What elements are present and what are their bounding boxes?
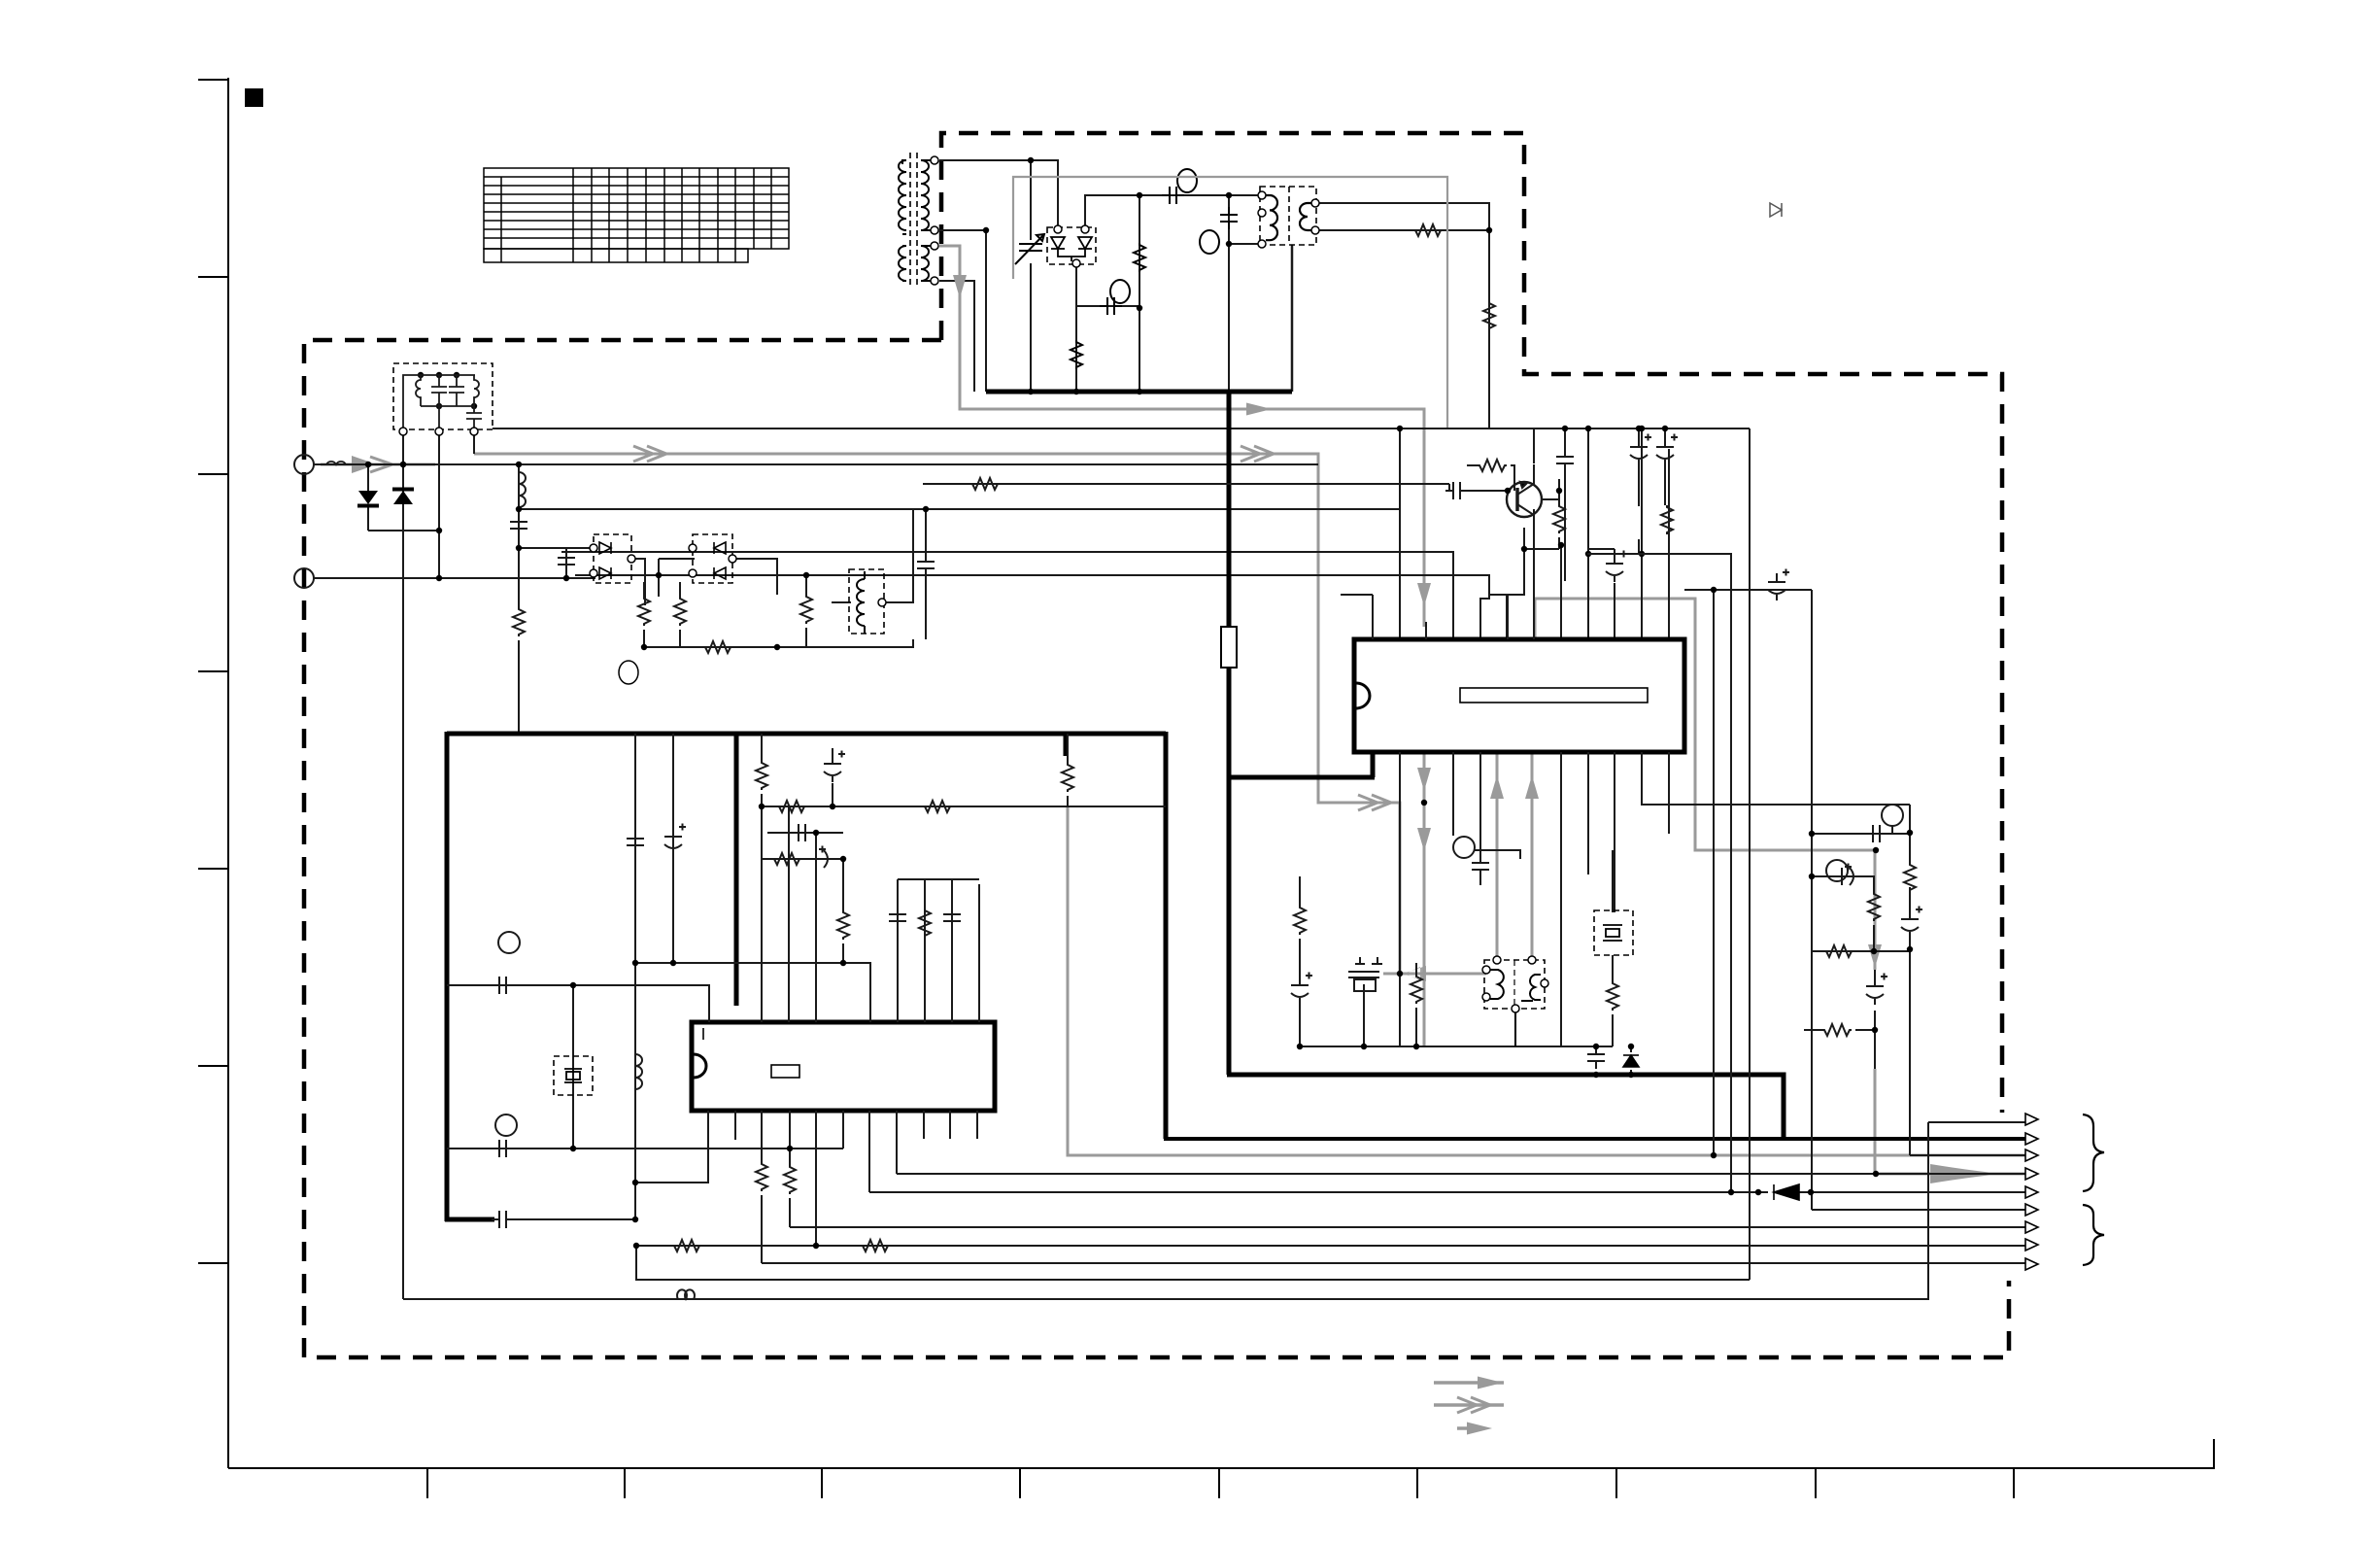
row8 — [636, 1245, 2025, 1247]
resistor — [1822, 1024, 1852, 1036]
ecap drop — [832, 748, 833, 806]
left area of IC2: caps circles crystal — [447, 932, 843, 1228]
thick L to IC1 — [1227, 752, 1375, 777]
gray r3 row — [1068, 806, 2025, 1155]
wire j2 — [314, 577, 595, 579]
left tick y285 — [198, 276, 228, 278]
gray mixer arrow left — [1383, 973, 1400, 976]
resistor — [837, 910, 849, 940]
left tick y691 — [198, 670, 228, 672]
gray arrowheads — [1246, 403, 1272, 416]
output arrow — [2025, 1133, 2038, 1145]
electrolytic capacitor — [1866, 974, 1887, 1006]
IF transformer dashed box top — [1260, 187, 1316, 245]
secondary winding lower — [921, 246, 929, 281]
thick box right — [1164, 732, 1169, 1139]
collector rail up — [1533, 429, 1535, 463]
gray under IC1 — [1423, 752, 1426, 1046]
signal flow chevron — [1241, 446, 1274, 462]
bottom ticks — [427, 1468, 2014, 1498]
signal flow arrow up — [1525, 775, 1539, 799]
antenna connector J1 — [294, 455, 314, 474]
input filter dashed box FL1 — [393, 363, 493, 429]
electrolytic capacitor — [1291, 973, 1312, 1005]
resistor — [800, 595, 812, 624]
outline arrows at outputs — [2025, 1114, 2038, 1125]
wire junction dots — [1711, 587, 1717, 593]
component pins — [590, 544, 597, 552]
left tick y82 — [198, 79, 228, 81]
left tick y894 — [198, 868, 228, 870]
component pins — [689, 544, 697, 552]
gray rail y182 — [1013, 177, 1447, 429]
resistor — [784, 1165, 796, 1194]
resistor — [1824, 945, 1853, 957]
dot junctions power — [983, 157, 1232, 394]
test point circle — [1200, 230, 1219, 254]
output arrow — [2025, 1149, 2038, 1161]
electrolytic capacitor — [1768, 569, 1789, 601]
component pins — [878, 599, 886, 606]
diode D1 — [357, 491, 379, 506]
capacitor — [1220, 207, 1238, 229]
thick stub x1097 — [1064, 734, 1069, 756]
thick box left — [445, 732, 450, 1221]
ceramic filter left — [1348, 964, 1379, 1046]
wire sec lower — [939, 281, 974, 392]
wire box lower pin — [1229, 243, 1262, 245]
verticals to IC1 top — [1399, 429, 1401, 639]
electrolytic capacitor — [1606, 551, 1627, 583]
capacitor — [889, 907, 906, 929]
wire x1265 down — [1228, 195, 1230, 392]
row9 — [762, 1262, 2025, 1264]
output arrow — [2025, 1204, 2038, 1216]
res drop left — [761, 734, 763, 1022]
capacitor — [1472, 855, 1489, 877]
capacitor — [1556, 449, 1574, 471]
row3 dark tail — [1910, 1154, 2025, 1156]
resistor — [1071, 340, 1082, 369]
transformer pins — [931, 156, 938, 285]
braces — [2083, 1114, 2104, 1265]
output arrow — [2025, 1258, 2038, 1270]
resistor — [674, 597, 686, 626]
resistor — [1062, 763, 1073, 792]
signal flow arrow down — [1417, 768, 1431, 791]
wire junction dots — [1486, 227, 1492, 233]
row y830 — [762, 806, 1166, 807]
left res/cap column — [1299, 876, 1301, 1046]
wire junction dots — [1397, 426, 1403, 431]
wire junction dots — [1872, 1027, 1878, 1033]
verticals from rails — [1587, 554, 1731, 1192]
gray pins up arrows — [1497, 752, 1532, 962]
x1966 column — [1909, 805, 1911, 1155]
resistor drop — [1415, 963, 1417, 1046]
resistor — [923, 801, 952, 812]
resistors cluster — [510, 514, 935, 653]
gray r4 tail — [1875, 1069, 2025, 1174]
emitter down — [1507, 528, 1524, 639]
left tick y1300 — [198, 1262, 228, 1264]
diode D1 drop — [367, 464, 369, 531]
resistor — [861, 1240, 890, 1252]
electrolytic capacitor — [1630, 434, 1651, 466]
circuitry above IC2 — [627, 734, 1166, 1219]
resistor — [1868, 892, 1880, 921]
resistor — [703, 641, 732, 653]
gray trace from transformer — [939, 246, 1424, 627]
rail y1077 — [1300, 1046, 1613, 1047]
thick bus power — [986, 390, 1292, 394]
gray antenna arrow segment — [321, 463, 435, 466]
bottom frame line — [228, 1439, 2214, 1468]
capacitor — [627, 831, 644, 853]
transformer box bottom pin — [1291, 245, 1294, 392]
dashed box top power section — [941, 133, 2002, 1113]
resistor — [756, 1162, 767, 1191]
wire junction dots — [570, 982, 576, 988]
y979 wire — [1812, 950, 1910, 952]
wire to varicap — [1030, 160, 1032, 392]
wire sec2 — [939, 230, 986, 392]
resistor — [1904, 863, 1916, 892]
component pins — [931, 156, 938, 164]
wire junction dots — [365, 462, 371, 467]
electrolytic capacitor — [808, 846, 833, 869]
resistor R905 h — [1413, 224, 1495, 330]
wire junction dots — [759, 804, 765, 809]
resistor right of Q1 — [1553, 504, 1565, 533]
cluster verticals — [518, 464, 520, 734]
resistor — [672, 1240, 701, 1252]
test point circle — [619, 661, 638, 684]
diode pack D901 dashed box — [1047, 227, 1096, 264]
connector J2 — [294, 568, 314, 588]
resistor — [1294, 906, 1306, 935]
component pins — [1258, 191, 1266, 199]
capacitor — [492, 977, 514, 994]
res drop right — [1067, 734, 1069, 806]
wire diode box top — [1085, 195, 1262, 229]
capacitor — [510, 514, 527, 536]
row y857 — [767, 832, 843, 834]
IC2 bottom pins — [635, 1111, 977, 1263]
capacitor — [917, 554, 935, 576]
inductor dashed box L5 — [849, 569, 884, 634]
test point circle — [1177, 169, 1197, 192]
resistor — [1661, 505, 1673, 534]
row y991 — [635, 963, 870, 1022]
row4 — [897, 1173, 2025, 1175]
wire y666 — [644, 639, 913, 647]
crystal dashed box right — [1594, 910, 1633, 955]
component pins — [1054, 225, 1062, 233]
rail y524 — [519, 509, 1400, 639]
rail y441 — [493, 428, 1750, 429]
resistor — [756, 761, 767, 790]
output arrow — [2025, 1168, 2038, 1180]
thick vertical main — [1227, 392, 1232, 1075]
row7 — [790, 1226, 2025, 1228]
signal flow arrow down — [1868, 944, 1882, 968]
inductor L1 — [326, 462, 346, 464]
component pins — [1482, 966, 1490, 974]
row5 with diode — [869, 1191, 2025, 1193]
diode pack dashed box A — [594, 534, 631, 583]
capacitor — [1587, 1046, 1605, 1069]
inductor — [677, 1289, 695, 1299]
row6 — [1812, 1209, 2025, 1211]
signal flow chevron — [633, 446, 666, 462]
input wire — [314, 463, 1318, 465]
IC1 top pins — [1341, 509, 1534, 639]
signal flow arrow down — [1417, 583, 1431, 606]
thick box top — [447, 732, 1166, 737]
diode bottom wire — [368, 530, 439, 531]
rail y498 with resistor — [923, 483, 1449, 485]
row y884 — [762, 859, 843, 910]
capacitor — [492, 1140, 514, 1157]
row y1317 supply — [636, 1246, 1750, 1280]
output arrow — [2025, 1186, 2038, 1198]
signal flow arrow — [1467, 1423, 1492, 1435]
resistor — [777, 801, 806, 812]
left frame line — [227, 78, 229, 1468]
inductor — [635, 1054, 642, 1089]
left tick y1097 — [198, 1065, 228, 1067]
wire junction dots — [1028, 157, 1034, 163]
electrolytic capacitor — [824, 751, 845, 783]
secondary winding upper — [921, 160, 929, 230]
diode D2 — [392, 490, 414, 505]
long drop from filter — [402, 431, 404, 1299]
resistor — [1607, 981, 1618, 1011]
wire box right upper — [1315, 203, 1489, 429]
diode D2 drop — [402, 464, 404, 531]
drops to IC2 — [789, 806, 843, 1022]
thick bus y1106 — [1227, 1075, 1784, 1139]
wire y315 — [1076, 305, 1139, 307]
wire junction dots — [1755, 1189, 1761, 1195]
transformer core — [910, 153, 917, 285]
gray right cluster — [1535, 599, 1875, 970]
x654 line w cap & coil — [634, 734, 636, 1219]
cap C903 — [1071, 169, 1238, 369]
y858 wire — [1812, 833, 1910, 835]
signal flow arrow up — [1490, 775, 1504, 799]
IC1 bottom pins — [1400, 752, 1910, 1046]
diodes in pack — [1051, 237, 1092, 261]
x693 line — [672, 734, 674, 963]
varicap CT901 — [1015, 234, 1044, 264]
electrolytic capacitor — [1656, 434, 1678, 466]
resistor above base — [1478, 460, 1507, 471]
signal flow arrow down — [953, 275, 967, 298]
diode on row5 — [1774, 1184, 1799, 1200]
inductor box feed — [832, 509, 913, 602]
capacitor — [1100, 297, 1122, 315]
signal flow arrow — [1478, 1377, 1503, 1389]
resistor — [638, 597, 650, 626]
wire diode box bottom — [1075, 261, 1077, 392]
thick box bottom-left stub — [445, 1217, 494, 1222]
title square — [245, 88, 263, 107]
wire junction dots — [516, 506, 522, 512]
electrolytic capacitor — [1834, 864, 1859, 886]
rail y568 — [561, 552, 1453, 639]
output arrow — [2025, 1221, 2038, 1233]
transistor Q1 — [1507, 482, 1542, 517]
crystal X2 dashed box — [554, 1056, 593, 1095]
resistor — [1413, 224, 1443, 236]
gray RF trace y467 — [474, 454, 1486, 974]
fuse on thick vertical — [1221, 627, 1237, 668]
primary winding — [899, 160, 906, 230]
wire junction dots — [1361, 1044, 1367, 1049]
component pins — [399, 428, 407, 435]
circle tp center — [1453, 837, 1475, 858]
electrolytic capacitor — [664, 824, 686, 856]
bottom gray arrows — [1434, 1383, 1504, 1405]
left tick y488 — [198, 473, 228, 475]
capacitor — [943, 907, 961, 929]
capacitor — [1162, 187, 1184, 204]
crystal column right — [1612, 850, 1614, 1046]
resistor — [1483, 301, 1495, 330]
resistor — [970, 478, 1000, 490]
electrolytic capacitor — [1901, 907, 1922, 939]
signal flow chevron — [1358, 795, 1391, 810]
row y1337 — [403, 1122, 1928, 1299]
resistor — [1411, 975, 1422, 1004]
signal flow arrow down — [1417, 828, 1431, 851]
y902 wire — [1812, 876, 1874, 892]
resistor — [1134, 243, 1145, 272]
resistor — [772, 853, 801, 865]
signal flow chevron — [1457, 1397, 1490, 1413]
cap before transistor — [1445, 482, 1468, 499]
filter pins down — [439, 431, 474, 578]
zener diode — [1623, 1055, 1639, 1067]
capacitor — [492, 1211, 514, 1228]
output arrow — [2025, 1239, 2038, 1251]
row1 — [1928, 1121, 2025, 1123]
mixer transformer dashed box — [1484, 960, 1545, 1009]
wire resistor drop x1173 — [1139, 195, 1140, 392]
diode pack dashed box B — [693, 534, 732, 583]
wire top — [939, 160, 1058, 229]
dashed box main tuner section — [304, 340, 2009, 1357]
capacitor — [791, 824, 813, 841]
cap & zener to bus — [1596, 1046, 1631, 1075]
resistor — [919, 909, 931, 938]
test point circle — [1110, 280, 1130, 303]
wire box right lower — [1315, 229, 1489, 231]
thick feed to IC2 — [734, 734, 739, 1006]
capacitor — [1865, 825, 1887, 842]
small diode glyph right — [1770, 203, 1782, 217]
thick bus row2 — [1164, 1137, 2025, 1141]
rail y592 — [575, 575, 1489, 639]
